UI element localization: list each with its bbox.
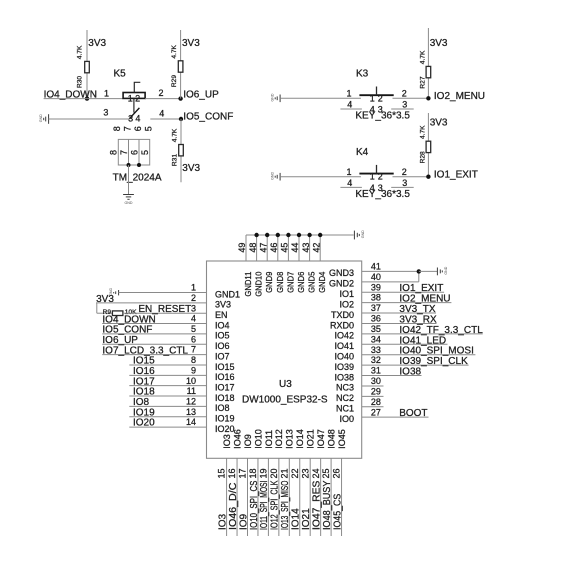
svg-text:GND: GND	[271, 93, 275, 101]
svg-text:3V3_RX: 3V3_RX	[399, 314, 437, 325]
wire 3V3_RX	[362, 322, 437, 324]
svg-text:IO40: IO40	[334, 352, 354, 362]
wire U3 pin 47	[266, 235, 268, 261]
wire IO1_EXIT	[362, 291, 444, 293]
svg-text:20: 20	[269, 468, 279, 478]
junction bus pin 46	[276, 233, 280, 237]
svg-text:IO18: IO18	[215, 393, 235, 403]
svg-text:5: 5	[140, 150, 150, 155]
svg-text:R29: R29	[171, 75, 178, 87]
wire IO19	[129, 416, 206, 418]
svg-text:R30: R30	[76, 76, 83, 88]
K5 plunger	[133, 98, 135, 112]
wire K3 pin2	[393, 97, 429, 99]
button K4 contact bar	[359, 173, 393, 175]
junction IO2_MENU / R27	[426, 96, 430, 100]
svg-text:IO15: IO15	[133, 356, 155, 367]
svg-text:IO39_SPI_CLK: IO39_SPI_CLK	[399, 356, 468, 367]
K5 body divider pin 6	[138, 139, 140, 165]
svg-text:7: 7	[191, 345, 196, 355]
K3 actuator	[376, 87, 378, 96]
svg-text:IO10: IO10	[253, 429, 263, 449]
svg-text:GND2: GND2	[329, 279, 354, 289]
svg-text:13: 13	[186, 407, 196, 417]
svg-text:IO1: IO1	[339, 289, 354, 299]
svg-text:42: 42	[311, 243, 321, 253]
svg-text:NC3: NC3	[336, 383, 354, 393]
svg-text:IO41: IO41	[334, 341, 354, 351]
junction bus pin 45	[286, 233, 290, 237]
wire U3 pin 24	[320, 458, 322, 536]
svg-text:IO21: IO21	[301, 508, 312, 530]
svg-text:IO2_MENU: IO2_MENU	[399, 294, 450, 305]
svg-text:DW1000_ESP32-S: DW1000_ESP32-S	[242, 394, 328, 405]
svg-text:IO19: IO19	[215, 414, 235, 424]
svg-text:IO41_LED: IO41_LED	[399, 335, 446, 346]
svg-text:1: 1	[370, 172, 375, 182]
resistor R29 4.7K	[180, 30, 182, 99]
ground (top bus)	[354, 231, 359, 240]
svg-text:NC2: NC2	[336, 393, 354, 403]
wire U3 pin 25	[330, 458, 332, 536]
svg-text:GND9: GND9	[264, 271, 274, 292]
svg-text:KEY_36*3.5: KEY_36*3.5	[355, 111, 410, 122]
svg-text:3: 3	[128, 113, 133, 123]
svg-text:4: 4	[159, 109, 164, 119]
svg-text:K4: K4	[356, 147, 369, 158]
stub K3 pin4	[340, 108, 362, 110]
svg-text:GND3: GND3	[329, 268, 354, 278]
svg-text:IO1_EXIT: IO1_EXIT	[399, 283, 443, 294]
svg-text:40: 40	[371, 272, 381, 282]
wire IO18	[129, 395, 206, 397]
svg-text:35: 35	[371, 324, 381, 334]
wire U3 pin 16	[236, 458, 238, 536]
wire K5 pin2 to IO6_UP	[145, 98, 181, 100]
stub K3 pin3	[391, 108, 414, 110]
ground (K4 pin1)	[275, 173, 280, 181]
svg-text:GND5: GND5	[307, 271, 317, 292]
svg-text:IO38: IO38	[399, 367, 421, 378]
svg-text:GND1: GND1	[215, 289, 240, 299]
wire BOOT	[362, 416, 429, 418]
svg-text:IO3: IO3	[222, 434, 232, 449]
svg-text:36: 36	[371, 314, 381, 324]
wire U3 pin 23	[309, 458, 311, 536]
svg-text:38: 38	[371, 293, 381, 303]
svg-text:GND6: GND6	[296, 271, 306, 292]
svg-text:3V3: 3V3	[182, 38, 200, 49]
svg-text:27: 27	[371, 407, 381, 417]
svg-text:IO2: IO2	[339, 299, 354, 309]
wire IO17	[129, 385, 206, 387]
svg-text:IO45_CS: IO45_CS	[332, 493, 343, 530]
wire IO20	[129, 426, 206, 428]
svg-text:3: 3	[191, 303, 196, 313]
K4 actuator	[376, 165, 378, 174]
wire U3 pin 45	[287, 235, 289, 261]
junction bus pin 43	[307, 233, 311, 237]
svg-text:K3: K3	[356, 69, 369, 80]
svg-text:IO42_TF_3.3_CTL: IO42_TF_3.3_CTL	[399, 325, 483, 336]
svg-text:1: 1	[104, 89, 109, 99]
svg-text:15: 15	[217, 468, 227, 478]
svg-text:IO20: IO20	[133, 418, 155, 429]
svg-text:IO10_SPI_CS: IO10_SPI_CS	[249, 480, 260, 530]
svg-text:14: 14	[186, 417, 196, 427]
wire U3 pin2 3V3	[96, 302, 207, 304]
wire IO5_CONF	[102, 333, 206, 335]
svg-text:39: 39	[371, 282, 381, 292]
svg-text:4: 4	[347, 100, 352, 110]
wire U3 pin 18	[257, 458, 259, 536]
wire K5 to ground	[128, 165, 130, 194]
svg-text:RXD0: RXD0	[330, 320, 354, 330]
svg-text:23: 23	[300, 468, 310, 478]
svg-text:IO16: IO16	[133, 366, 155, 377]
K5 switch arm	[129, 108, 139, 119]
svg-text:IO14: IO14	[291, 508, 302, 530]
svg-text:5: 5	[144, 126, 154, 131]
svg-text:4.7K: 4.7K	[171, 128, 178, 142]
ground (U3 pin1)	[114, 290, 119, 295]
svg-text:26: 26	[332, 468, 342, 478]
wire U3 pin 28 stub	[362, 406, 384, 408]
svg-text:K5: K5	[114, 69, 127, 80]
svg-text:2: 2	[402, 167, 407, 177]
svg-text:7: 7	[119, 150, 129, 155]
svg-text:IO8: IO8	[133, 397, 150, 408]
wire IO40_SPI_MOSI	[362, 354, 476, 356]
svg-text:4.7K: 4.7K	[76, 45, 83, 59]
svg-text:9: 9	[191, 365, 196, 375]
wire K4 pin2	[393, 176, 429, 178]
svg-text:10: 10	[186, 376, 196, 386]
wire K5 pin4 to IO5_CONF	[150, 118, 181, 120]
svg-text:1: 1	[128, 94, 133, 104]
resistor R9 10K	[97, 312, 113, 314]
svg-text:GND: GND	[271, 172, 275, 180]
svg-text:IO12: IO12	[274, 429, 284, 449]
svg-text:6: 6	[191, 334, 196, 344]
svg-text:33: 33	[371, 345, 381, 355]
svg-text:3V3_TX: 3V3_TX	[399, 304, 435, 315]
svg-text:4: 4	[135, 113, 140, 123]
svg-text:4: 4	[347, 178, 352, 188]
wire U3 pin1	[119, 292, 207, 294]
wire U3 pin 17	[247, 458, 249, 536]
resistor R30 4.7K	[86, 30, 88, 99]
resistor R28 4.7K	[427, 113, 429, 177]
svg-text:TM_2024A: TM_2024A	[113, 172, 162, 183]
K5 lower body (pins 8-5)	[118, 139, 149, 165]
wire to ground	[419, 270, 438, 272]
svg-text:IO8: IO8	[215, 403, 230, 413]
svg-text:IO42: IO42	[334, 331, 354, 341]
wire U3 pin 46	[277, 235, 279, 261]
svg-text:7: 7	[123, 126, 133, 131]
svg-text:47: 47	[258, 243, 268, 253]
junction IO1_EXIT / R28	[426, 175, 430, 179]
ground (K5 pin3)	[44, 114, 49, 124]
svg-text:GND8: GND8	[275, 271, 285, 292]
svg-text:R31: R31	[171, 154, 178, 166]
junction IO4_DOWN / R30	[85, 96, 89, 100]
svg-text:IO1_EXIT: IO1_EXIT	[434, 170, 478, 181]
svg-text:3: 3	[402, 100, 407, 110]
svg-text:4.7K: 4.7K	[420, 50, 427, 64]
svg-text:11: 11	[187, 386, 196, 396]
svg-text:IO39: IO39	[334, 362, 354, 372]
svg-text:3: 3	[402, 178, 407, 188]
svg-text:8: 8	[108, 150, 118, 155]
wire K3 pin1	[280, 97, 361, 99]
K5 body divider pin 7	[128, 139, 130, 165]
svg-text:IO4: IO4	[215, 320, 230, 330]
svg-text:R27: R27	[420, 76, 427, 88]
ground (TM_2024A)	[123, 195, 134, 200]
junction bus pin 44	[297, 233, 301, 237]
svg-text:IO47_RES: IO47_RES	[311, 480, 322, 530]
svg-text:43: 43	[301, 243, 311, 253]
svg-text:GND: GND	[39, 114, 43, 122]
svg-text:IO46_D/C: IO46_D/C	[228, 483, 239, 530]
wire U3 pin 43	[309, 235, 311, 261]
svg-text:3V3: 3V3	[215, 300, 231, 310]
svg-text:31: 31	[371, 366, 381, 376]
wire U3 pin 22	[299, 458, 301, 536]
wire U3 pin41 GND	[362, 270, 419, 272]
svg-text:IO7: IO7	[215, 351, 230, 361]
svg-text:GND: GND	[125, 201, 133, 205]
svg-text:NC1: NC1	[336, 404, 354, 414]
wire U3 pin 15	[226, 458, 228, 536]
svg-text:32: 32	[371, 355, 381, 365]
wire U3 pin 44	[298, 235, 300, 261]
resistor R27 4.7K	[427, 28, 429, 98]
svg-text:IO47: IO47	[316, 429, 326, 449]
svg-text:1: 1	[370, 93, 375, 103]
svg-text:IO45: IO45	[337, 429, 347, 449]
svg-text:6: 6	[133, 126, 143, 131]
switch K5 body	[123, 93, 145, 99]
svg-text:19: 19	[259, 468, 269, 478]
wire K5 pin3	[49, 118, 130, 120]
svg-text:1: 1	[191, 283, 196, 293]
wire U3 pin 19	[267, 458, 269, 536]
svg-text:IO21: IO21	[306, 429, 316, 449]
svg-text:R28: R28	[420, 151, 427, 163]
stub K4 pin3	[391, 186, 414, 188]
svg-text:IO17: IO17	[215, 382, 235, 392]
wire IO4_DOWN	[102, 323, 206, 325]
wire IO7_LCD_3.3_CTL	[102, 354, 206, 356]
wire U3 pin 29 stub	[362, 395, 384, 397]
svg-text:GND11: GND11	[243, 271, 253, 296]
junction pins 41/40	[417, 269, 421, 273]
junction K5 pin7/GND	[127, 163, 131, 167]
wire U3 pin 30 stub	[362, 385, 384, 387]
junction bus pin 48	[254, 233, 258, 237]
stub K4 pin4	[340, 186, 362, 188]
svg-text:GND4: GND4	[317, 271, 327, 292]
svg-text:KEY_36*3.5: KEY_36*3.5	[355, 189, 410, 200]
svg-text:U3: U3	[279, 379, 292, 390]
svg-text:8: 8	[112, 126, 122, 131]
svg-text:29: 29	[371, 386, 381, 396]
svg-text:IO5: IO5	[215, 331, 230, 341]
wire IO8	[129, 405, 206, 407]
op-amp U3 body	[207, 261, 362, 458]
svg-text:2: 2	[378, 172, 383, 182]
svg-text:IO5_CONF: IO5_CONF	[183, 111, 233, 122]
svg-text:IO5_CONF: IO5_CONF	[102, 325, 152, 336]
button K3 contact bar	[359, 94, 393, 96]
svg-text:IO19: IO19	[133, 407, 155, 418]
svg-text:IO6_UP: IO6_UP	[102, 335, 138, 346]
junction bus pin 47	[265, 233, 269, 237]
wire 3V3_TX	[362, 312, 436, 314]
svg-text:IO9: IO9	[243, 434, 253, 449]
svg-text:IO18: IO18	[133, 387, 155, 398]
svg-text:12: 12	[186, 396, 196, 406]
wire pin40 up to pin41	[418, 271, 420, 281]
svg-text:28: 28	[371, 397, 381, 407]
wire K4 pin1	[280, 176, 361, 178]
svg-text:IO48_BUSY: IO48_BUSY	[322, 480, 333, 530]
svg-text:GND10: GND10	[254, 271, 264, 296]
svg-text:24: 24	[311, 468, 321, 478]
svg-text:IO13: IO13	[285, 429, 295, 449]
ground (U3 pins 41/40)	[437, 268, 442, 276]
svg-text:GND: GND	[361, 230, 365, 238]
svg-text:22: 22	[290, 468, 300, 478]
svg-text:IO9: IO9	[238, 513, 249, 530]
junction K5 pin6/GND	[137, 163, 141, 167]
wire IO42_TF_3.3_CTL	[362, 333, 483, 335]
wire U3 pin40 GND	[362, 281, 419, 283]
svg-text:IO14: IO14	[295, 429, 305, 449]
svg-text:3: 3	[103, 108, 108, 118]
wire IO6_UP	[102, 343, 206, 345]
svg-text:GND: GND	[444, 266, 448, 274]
svg-text:1: 1	[346, 89, 351, 99]
svg-text:4: 4	[191, 314, 196, 324]
svg-text:IO6_UP: IO6_UP	[183, 89, 219, 100]
svg-text:IO3: IO3	[217, 513, 228, 530]
svg-text:IO38: IO38	[334, 372, 354, 382]
ground (K3 pin1)	[275, 95, 280, 103]
wire U3 pin 49	[245, 235, 247, 261]
wire U3 pin 26	[341, 458, 343, 536]
wire U3 pin 48	[256, 235, 258, 261]
svg-text:2: 2	[135, 94, 140, 104]
junction IO6_UP / R29	[178, 96, 182, 100]
svg-text:EN: EN	[215, 310, 228, 320]
svg-text:IO11: IO11	[264, 430, 274, 449]
svg-text:5: 5	[191, 324, 196, 334]
svg-text:3V3: 3V3	[88, 38, 106, 49]
svg-text:44: 44	[290, 243, 300, 253]
wire IO15	[129, 364, 206, 366]
wire IO41_LED	[362, 343, 448, 345]
svg-text:30: 30	[371, 376, 381, 386]
wire U3 pin 20	[278, 458, 280, 536]
svg-text:IO6: IO6	[215, 341, 230, 351]
svg-text:25: 25	[321, 468, 331, 478]
svg-text:IO0: IO0	[339, 414, 354, 424]
wire IO39_SPI_CLK	[362, 364, 469, 366]
svg-text:21: 21	[279, 468, 289, 478]
svg-text:8: 8	[191, 355, 196, 365]
wire IO16	[129, 374, 206, 376]
svg-text:17: 17	[238, 468, 248, 478]
svg-text:GND7: GND7	[285, 271, 295, 292]
wire K5 pin1	[44, 98, 124, 100]
svg-text:IO11_SPI_MOSI: IO11_SPI_MOSI	[259, 481, 270, 530]
wire GND bus (top pins)	[246, 234, 354, 236]
svg-text:48: 48	[248, 243, 258, 253]
svg-text:49: 49	[237, 243, 247, 253]
K5 actuator	[134, 82, 140, 92]
wire U3 pin 21	[288, 458, 290, 536]
svg-text:1: 1	[346, 167, 351, 177]
wire IO2_MENU	[362, 302, 452, 304]
svg-text:IO15: IO15	[215, 362, 235, 372]
wire U3 pin 42	[319, 235, 321, 261]
svg-text:3V3: 3V3	[96, 294, 114, 305]
svg-text:4.7K: 4.7K	[420, 125, 427, 139]
svg-text:18: 18	[248, 468, 258, 478]
svg-text:IO46: IO46	[232, 429, 242, 449]
svg-text:2: 2	[158, 88, 163, 98]
svg-text:45: 45	[280, 243, 290, 253]
svg-text:TXD0: TXD0	[331, 310, 354, 320]
svg-text:IO13_SPI_MISO: IO13_SPI_MISO	[280, 480, 291, 530]
svg-text:3V3: 3V3	[430, 118, 448, 129]
svg-text:3V3: 3V3	[430, 38, 448, 49]
wire EN_RESET	[123, 312, 207, 314]
svg-text:IO4_DOWN: IO4_DOWN	[102, 314, 155, 325]
svg-text:4.7K: 4.7K	[171, 44, 178, 58]
svg-text:IO2_MENU: IO2_MENU	[434, 91, 485, 102]
svg-text:34: 34	[371, 334, 381, 344]
junction bus pin 42	[318, 233, 322, 237]
svg-text:2: 2	[191, 293, 196, 303]
svg-text:IO17: IO17	[133, 376, 155, 387]
svg-text:IO40_SPI_MOSI: IO40_SPI_MOSI	[399, 346, 473, 357]
svg-text:IO16: IO16	[215, 372, 235, 382]
svg-text:IO12_SPI_CLK: IO12_SPI_CLK	[270, 480, 281, 530]
wire 3V3 to R9	[96, 303, 98, 313]
svg-text:IO48: IO48	[327, 429, 337, 449]
svg-text:2: 2	[378, 93, 383, 103]
svg-text:37: 37	[371, 303, 381, 313]
svg-text:41: 41	[371, 262, 381, 272]
svg-text:3V3: 3V3	[182, 163, 200, 174]
resistor R31 4.7K	[180, 119, 182, 182]
svg-text:2: 2	[402, 89, 407, 99]
junction IO5_CONF / R31	[179, 117, 183, 121]
svg-text:46: 46	[269, 243, 279, 253]
wire IO38	[362, 375, 422, 377]
svg-text:6: 6	[130, 150, 140, 155]
svg-text:16: 16	[227, 468, 237, 478]
